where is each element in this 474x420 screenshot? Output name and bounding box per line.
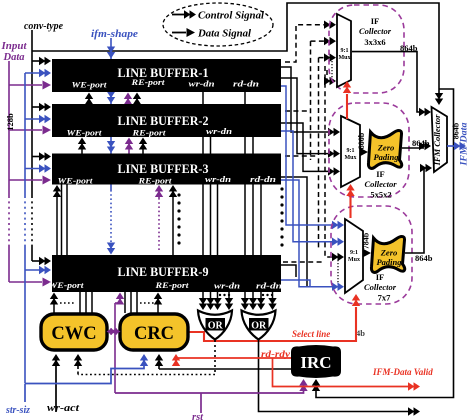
wire Input-Data purple rail <box>9 61 42 282</box>
wire rd-rdy red line from IRC to CRC <box>176 358 291 361</box>
zero padding ZP2 <box>371 237 404 273</box>
svg-text:WE-port: WE-port <box>67 129 103 138</box>
svg-text:RE-port: RE-port <box>154 281 189 290</box>
line buffer LB1 <box>52 59 281 92</box>
svg-text:wr-dn: wr-dn <box>205 174 231 184</box>
CRC block <box>120 314 188 350</box>
svg-text:864b: 864b <box>415 253 433 263</box>
svg-text:9:1: 9:1 <box>350 250 358 256</box>
svg-text:Pading: Pading <box>373 152 399 162</box>
wire str-siz blue input to CRC <box>25 360 144 384</box>
wire ifm-shape blue column <box>110 38 112 250</box>
IFM collector trapezoid <box>432 107 448 172</box>
line buffer LB9 <box>49 255 283 292</box>
wire str-siz blue rail <box>25 73 45 383</box>
svg-text:864b: 864b <box>412 138 430 148</box>
wire rst purple line <box>115 381 304 393</box>
svg-text:WE-port: WE-port <box>72 81 108 90</box>
svg-text:9:1: 9:1 <box>347 148 355 154</box>
IF collector 7x7 dashed ellipse <box>331 206 412 304</box>
svg-text:OR: OR <box>208 321 224 332</box>
svg-text:4b: 4b <box>356 328 365 338</box>
svg-text:RE-port: RE-port <box>137 177 172 186</box>
wire black data outputs of line buffers to mux2 <box>281 67 330 287</box>
svg-text:str-siz: str-siz <box>5 405 31 416</box>
wire mux1 864b output to IFM collector <box>352 52 424 112</box>
line buffer LB2 <box>52 104 281 138</box>
svg-text:LINE BUFFER-9: LINE BUFFER-9 <box>118 264 209 279</box>
node dotted line above CRC <box>140 302 156 304</box>
svg-text:Mux: Mux <box>348 257 360 263</box>
svg-text:Collector: Collector <box>364 282 397 292</box>
svg-text:ifm-shape: ifm-shape <box>91 29 138 40</box>
mux U1 9:1 <box>337 14 351 87</box>
wire OR2 output to IRC and bottom arrow <box>159 340 412 412</box>
svg-text:5x5x2: 5x5x2 <box>370 190 391 200</box>
legend ellipse <box>163 3 273 46</box>
svg-text:864b: 864b <box>400 43 418 53</box>
node arrows conv-type into line buffers <box>39 57 443 391</box>
or-gate G2 <box>242 311 276 340</box>
wire IFM-Data Valid red arrow <box>273 358 413 387</box>
svg-text:IF: IF <box>376 272 385 282</box>
svg-text:7x7: 7x7 <box>378 293 392 303</box>
svg-text:RE-port: RE-port <box>130 78 165 87</box>
wire blue data outputs of line buffers to mux3 <box>281 86 334 287</box>
svg-text:LINE BUFFER-2: LINE BUFFER-2 <box>118 113 209 128</box>
wire CWC-CRC purple double arrow <box>107 328 121 335</box>
IF collector 3x3x6 dashed ellipse <box>329 5 404 93</box>
wire mux2 800b output to zero padding <box>360 151 362 153</box>
svg-text:wr-dn: wr-dn <box>214 281 240 291</box>
wire zero padding 864b output up to IFM collector <box>405 168 426 253</box>
svg-text:Select line: Select line <box>292 329 330 339</box>
svg-text:CWC: CWC <box>51 324 96 344</box>
svg-text:800b: 800b <box>357 132 366 149</box>
svg-text:Collector: Collector <box>359 26 392 36</box>
CWC block <box>41 314 107 350</box>
svg-text:rd-dn: rd-dn <box>250 174 276 184</box>
svg-text:WE-port: WE-port <box>58 177 94 186</box>
svg-text:IFM Collector: IFM Collector <box>432 114 442 166</box>
wire red select lines into muxes <box>188 94 356 341</box>
svg-text:wr-dn: wr-dn <box>206 126 232 136</box>
wire mux3 784b output to zero padding <box>363 252 365 254</box>
svg-text:WE-port: WE-port <box>49 281 85 290</box>
wire conv-type rail <box>32 30 45 261</box>
wire WE column stubs from CWC <box>54 98 92 313</box>
node ellipsis dots columns <box>177 187 283 296</box>
wire wr-act input to CWC <box>55 358 57 412</box>
wire zero padding 864b output to IFM collector <box>402 147 424 149</box>
svg-text:9:1: 9:1 <box>341 48 349 54</box>
svg-text:IF: IF <box>371 16 380 26</box>
svg-text:IF: IF <box>376 169 385 179</box>
svg-text:rd-rdy: rd-rdy <box>261 349 291 359</box>
svg-text:rd-dn: rd-dn <box>233 79 259 89</box>
svg-text:784b: 784b <box>362 232 371 249</box>
svg-text:OR: OR <box>251 321 267 332</box>
svg-text:Zero: Zero <box>377 143 395 153</box>
node dotted column beside mux3 <box>332 58 338 283</box>
svg-text:RE-port: RE-port <box>131 129 166 138</box>
mux U3 9:1 <box>345 219 363 293</box>
svg-text:128b: 128b <box>5 113 15 131</box>
svg-text:LINE BUFFER-3: LINE BUFFER-3 <box>118 161 209 176</box>
svg-text:wr-dn: wr-dn <box>189 79 215 89</box>
mux U2 9:1 <box>341 116 360 187</box>
svg-text:conv-type: conv-type <box>24 20 63 32</box>
svg-text:CRC: CRC <box>134 324 174 344</box>
svg-text:rst: rst <box>192 412 204 420</box>
svg-text:Mux: Mux <box>339 55 351 61</box>
svg-text:rd-dn: rd-dn <box>256 281 282 291</box>
IF collector 5x5x2 dashed ellipse <box>329 103 409 197</box>
wire rst purple column stubs <box>115 98 159 393</box>
node dotted line above CWC <box>60 302 76 304</box>
line buffer LB3 <box>52 154 281 186</box>
wire IFM-Data blue output <box>447 145 459 147</box>
wire wr-dn columns to OR1 <box>203 92 229 304</box>
wire RE column stubs from CRC <box>125 98 173 313</box>
svg-text:IRC: IRC <box>300 353 331 372</box>
wire rd-dn columns to OR2 <box>245 92 273 304</box>
svg-text:Pading: Pading <box>376 257 402 267</box>
wire OR1 dotted output to CWC <box>78 340 215 375</box>
IRC block <box>291 345 341 378</box>
svg-text:Mux: Mux <box>345 155 357 161</box>
svg-text:Zero: Zero <box>380 248 398 258</box>
svg-text:Collector: Collector <box>364 179 397 189</box>
wire dashed control bundle to 9:1 muxes <box>283 25 340 262</box>
svg-text:IFM-Data Valid: IFM-Data Valid <box>372 367 433 377</box>
svg-text:Data Signal: Data Signal <box>197 29 251 40</box>
svg-text:Control Signal: Control Signal <box>198 11 264 22</box>
svg-text:wr-act: wr-act <box>47 403 80 414</box>
zero padding ZP1 <box>368 131 401 169</box>
svg-text:Data: Data <box>3 51 25 63</box>
svg-text:IFM-Data: IFM-Data <box>459 122 469 167</box>
or-gate G1 <box>198 311 232 340</box>
svg-text:3x3x6: 3x3x6 <box>364 37 385 47</box>
